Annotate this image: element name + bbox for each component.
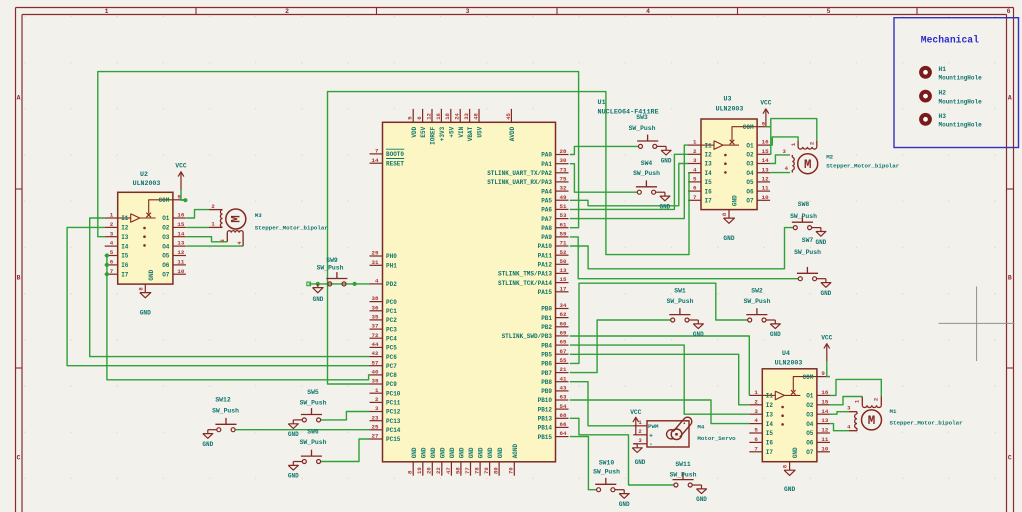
svg-text:SW_Push: SW_Push (212, 408, 239, 415)
svg-text:I2: I2 (121, 225, 129, 232)
svg-text:VCC: VCC (760, 100, 771, 107)
U4 pin 8 GND + ground symbol (782, 462, 796, 493)
svg-text:20: 20 (426, 467, 433, 474)
svg-text:PA12: PA12 (538, 262, 553, 269)
svg-text:50: 50 (560, 258, 567, 265)
SW11 labels (670, 461, 697, 479)
U4 pin 10 O7 (806, 445, 830, 456)
svg-text:15: 15 (821, 398, 828, 405)
svg-text:14: 14 (821, 408, 828, 415)
M2 coil A (horizontal) (790, 141, 817, 149)
push button SW7 (797, 267, 832, 297)
svg-text:PA11: PA11 (538, 252, 553, 259)
wire U4.O3 to M1 coilB top (830, 412, 849, 415)
wire PA5 to U3.I3 (570, 164, 688, 206)
mounting hole H3 (921, 113, 982, 129)
svg-text:COM: COM (803, 374, 814, 381)
svg-text:U5V: U5V (477, 126, 484, 137)
svg-text:SW6: SW6 (307, 429, 319, 436)
svg-text:58: 58 (454, 467, 461, 474)
svg-text:I4: I4 (121, 243, 129, 250)
SW10 labels (593, 460, 620, 476)
svg-text:STLINK_TCK/PA14: STLINK_TCK/PA14 (498, 280, 552, 287)
svg-text:1: 1 (693, 139, 697, 146)
U1 bottom pin 58 GND (454, 447, 465, 476)
svg-text:SW_Push: SW_Push (300, 400, 327, 407)
svg-text:STLINK_TMS/PA13: STLINK_TMS/PA13 (498, 271, 552, 278)
svg-text:-: - (649, 441, 653, 448)
svg-text:35: 35 (372, 314, 379, 321)
svg-text:5: 5 (693, 176, 697, 183)
svg-text:39: 39 (372, 378, 379, 385)
U1 right pin 43 PB9 (541, 385, 568, 396)
U1 left pin 36 PC1 (370, 304, 398, 315)
svg-text:7: 7 (754, 445, 758, 452)
U1 bottom pin 47 GND (445, 447, 456, 476)
U2 pin 12 O5 (162, 249, 186, 260)
svg-text:I7: I7 (705, 198, 713, 205)
svg-text:A: A (1008, 94, 1012, 101)
svg-text:SW9: SW9 (326, 257, 338, 264)
U1 left pin 44 PC5 (370, 341, 398, 352)
svg-text:80: 80 (493, 467, 500, 474)
push button SW10 (595, 478, 630, 508)
U1 left pin 39 PC9 (370, 378, 398, 389)
svg-text:GND: GND (723, 235, 734, 242)
svg-text:PC11: PC11 (386, 400, 401, 407)
M3 coil A (vertical) (209, 203, 223, 228)
svg-text:M: M (868, 414, 876, 428)
svg-text:GND: GND (468, 447, 475, 458)
svg-text:PB8: PB8 (541, 379, 552, 386)
svg-text:PB4: PB4 (541, 342, 552, 349)
svg-text:48: 48 (472, 112, 479, 119)
svg-text:VIN: VIN (458, 126, 465, 137)
svg-text:75: 75 (560, 176, 567, 183)
svg-text:3: 3 (375, 405, 379, 412)
svg-text:STLINK_SWD/PB3: STLINK_SWD/PB3 (502, 333, 553, 340)
U1 left pin 37 PC3 (370, 323, 398, 334)
push button SW8 (792, 216, 827, 246)
svg-text:M3: M3 (255, 212, 262, 219)
mounting hole H1 (921, 66, 982, 82)
svg-text:C: C (1008, 454, 1012, 461)
svg-text:2: 2 (285, 8, 289, 15)
U1 right pin 41 PB8 (541, 375, 568, 386)
svg-text:M1: M1 (890, 408, 897, 415)
svg-text:O1: O1 (162, 215, 170, 222)
svg-text:PB6: PB6 (541, 361, 552, 368)
U2 pin 3 I3 (105, 230, 129, 241)
U1 right pin 49 PA5 (541, 194, 568, 205)
svg-text:27: 27 (372, 433, 379, 440)
U1 left pin 29 PH0 (370, 250, 398, 261)
svg-text:19: 19 (416, 467, 423, 474)
svg-text:B: B (1008, 274, 1012, 281)
U1 right pin 54 PB12 (538, 403, 569, 414)
svg-text:GND: GND (487, 447, 494, 458)
svg-text:GND: GND (449, 447, 456, 458)
svg-text:69: 69 (560, 330, 567, 337)
push button SW6 (288, 450, 322, 480)
svg-text:1: 1 (110, 212, 114, 219)
SW8 labels (790, 201, 817, 220)
svg-text:O5: O5 (162, 253, 170, 260)
dangling wire end marker (307, 282, 311, 286)
U1 bottom pin 79 GND (483, 447, 494, 476)
svg-text:I3: I3 (121, 234, 129, 241)
SW3 labels (629, 114, 656, 132)
M1 coil B (vertical) (847, 405, 857, 431)
U1 left pin 31 PH1 (370, 259, 398, 270)
svg-text:I1: I1 (121, 215, 129, 222)
wire net U2.I2 to PC7 (67, 227, 369, 365)
svg-text:O6: O6 (162, 262, 170, 269)
svg-text:16: 16 (762, 139, 769, 146)
svg-text:O2: O2 (806, 402, 814, 409)
svg-text:64: 64 (560, 430, 567, 437)
wire U4.O2 to M1 coilA pin1 (830, 397, 862, 405)
svg-text:O6: O6 (806, 440, 814, 447)
U1 right pin 50 PA12 (538, 258, 569, 269)
svg-text:PA15: PA15 (538, 289, 553, 296)
svg-text:13: 13 (762, 166, 769, 173)
U1 bottom pin 22 GND (435, 447, 446, 476)
svg-text:O6: O6 (746, 188, 754, 195)
svg-text:AGND: AGND (512, 443, 519, 458)
svg-text:GND: GND (288, 431, 299, 438)
svg-text:I2: I2 (766, 402, 774, 409)
U4 pin 3 I3 (749, 408, 773, 419)
svg-text:E5V: E5V (420, 126, 427, 137)
svg-text:PH1: PH1 (386, 263, 397, 270)
M1 labels (890, 408, 964, 426)
U3 pin 12 O5 (746, 176, 770, 187)
svg-text:1: 1 (375, 387, 379, 394)
SW6 labels (300, 429, 327, 447)
svg-text:PC15: PC15 (386, 436, 401, 443)
svg-text:Motor_Servo: Motor_Servo (697, 435, 736, 442)
svg-text:SW_Push: SW_Push (317, 265, 344, 272)
svg-text:5: 5 (110, 249, 114, 256)
svg-text:52: 52 (560, 249, 567, 256)
U4 pin 1 I1 (749, 389, 773, 400)
U3 pin 3 I3 (688, 157, 712, 168)
svg-text:PA5: PA5 (541, 197, 552, 204)
U1 right pin 52 PA11 (538, 249, 569, 260)
power symbol VCC at U3 (760, 100, 771, 127)
svg-text:PA8: PA8 (541, 225, 552, 232)
svg-text:I6: I6 (766, 440, 774, 447)
U3 pin 8 GND + ground symbol (721, 210, 735, 242)
svg-text:GND: GND (148, 269, 155, 280)
U2 pin 13 O4 (162, 240, 186, 251)
U1 left pin 72 PC4 (370, 332, 398, 343)
svg-text:32: 32 (560, 185, 567, 192)
IC U1 NUCLEO64-F411RE body (383, 122, 556, 462)
U3 pin 11 O6 (746, 185, 770, 196)
svg-text:PB2: PB2 (541, 324, 552, 331)
svg-text:GND: GND (439, 447, 446, 458)
svg-text:71: 71 (560, 240, 567, 247)
SW5 labels (300, 389, 327, 407)
svg-text:3: 3 (466, 8, 470, 15)
svg-text:42: 42 (372, 350, 379, 357)
U1 right pin 53 PA7 (541, 212, 568, 223)
U1 top pin 5 VDD (407, 109, 418, 138)
U2 pin 9 COM (159, 193, 186, 204)
wire PA0 to SW3 (570, 146, 639, 154)
svg-text:SW11: SW11 (675, 461, 691, 468)
wire PB13 to SW11 (570, 418, 674, 485)
U1 left pin 1 PC10 (370, 387, 401, 398)
svg-text:11: 11 (177, 259, 184, 266)
svg-text:Mechanical: Mechanical (921, 35, 979, 46)
svg-text:SW2: SW2 (751, 288, 763, 295)
junction U2.I6 (105, 263, 109, 267)
svg-text:Stepper_Motor_bipolar: Stepper_Motor_bipolar (890, 420, 964, 427)
U4 pin 13 O4 (806, 417, 830, 428)
svg-text:SW3: SW3 (636, 114, 648, 121)
SW9 labels (317, 257, 344, 272)
svg-text:PB0: PB0 (541, 306, 552, 313)
power symbol VCC at U4 (821, 335, 832, 362)
svg-text:SW_Push: SW_Push (790, 213, 817, 220)
svg-text:6: 6 (110, 259, 114, 266)
U2 pin 6 I6 (105, 259, 129, 270)
svg-text:PB14: PB14 (538, 425, 553, 432)
svg-text:SW_Push: SW_Push (300, 439, 327, 446)
IC U4 ULN2003 body (762, 369, 817, 462)
svg-text:14: 14 (372, 157, 379, 164)
U2 pin 11 O6 (162, 259, 186, 270)
wire PB15 to SW10 (570, 437, 597, 490)
svg-text:17: 17 (560, 285, 567, 292)
svg-text:4: 4 (754, 417, 758, 424)
svg-text:6: 6 (693, 185, 697, 192)
U1 right pin 64 PB15 (538, 430, 569, 441)
U1 bottom pin 70 AGND (508, 443, 519, 475)
svg-text:PA0: PA0 (541, 152, 552, 159)
svg-text:11: 11 (762, 185, 769, 192)
svg-text:5: 5 (827, 8, 831, 15)
svg-text:13: 13 (821, 417, 828, 424)
svg-text:22: 22 (435, 467, 442, 474)
svg-text:28: 28 (560, 148, 567, 155)
svg-text:Stepper_Motor_bipolar: Stepper_Motor_bipolar (255, 225, 329, 232)
svg-text:GND: GND (815, 239, 826, 246)
U1 right pin 28 PA0 (541, 148, 568, 159)
wire PB8 to servo PWM (570, 382, 633, 426)
svg-text:4: 4 (646, 8, 650, 15)
push button SW5 (288, 408, 322, 438)
svg-text:I1: I1 (766, 393, 774, 400)
U1 top pin 18 +5V (444, 109, 455, 138)
U1 right pin 65 PB4 (541, 339, 568, 350)
svg-text:68: 68 (560, 412, 567, 419)
svg-text:O5: O5 (806, 430, 814, 437)
SW12 labels (212, 397, 239, 415)
U1 right pin 69 STLINK_SWD/PB3 (502, 330, 569, 341)
svg-text:GND: GND (792, 447, 799, 458)
wire PB4 to U4.I3 (570, 345, 750, 414)
U1 left pin 25 PC14 (370, 423, 401, 434)
svg-text:PC2: PC2 (386, 317, 397, 324)
wire PD2 through SW9 (309, 283, 370, 285)
svg-text:25: 25 (372, 423, 379, 430)
svg-text:12: 12 (177, 249, 184, 256)
svg-text:3: 3 (110, 230, 114, 237)
svg-text:PC10: PC10 (386, 390, 401, 397)
svg-text:2: 2 (375, 396, 379, 403)
U1 top pin 16 +3V3 (435, 109, 446, 141)
svg-text:14: 14 (177, 230, 184, 237)
U1 bottom pin 20 GND (426, 447, 437, 476)
svg-text:I4: I4 (705, 170, 713, 177)
wire U2.O3 to M3 coilB left (186, 237, 227, 242)
junction at SW9/GND (316, 282, 320, 286)
M3 coil B (horizontal) (219, 231, 243, 246)
svg-text:SW_Push: SW_Push (629, 125, 656, 132)
U4 pin 4 I4 (749, 417, 773, 428)
wire U2.O2 to M3 coilA bottom (186, 226, 209, 228)
wire U4.O4 to M1 coilB bottom (830, 424, 849, 431)
wire PA7 to U3.I1 (570, 145, 688, 219)
svg-text:MountingHole: MountingHole (939, 122, 983, 129)
U1 left pin 27 PC15 (370, 433, 401, 444)
svg-text:O3: O3 (806, 411, 814, 418)
svg-text:PB10: PB10 (538, 397, 553, 404)
svg-text:I2: I2 (705, 152, 713, 159)
svg-text:O7: O7 (162, 271, 170, 278)
U3 pin 13 O4 (746, 166, 770, 177)
wire SW6 to PC15 (321, 439, 370, 462)
U3 pin 10 O7 (746, 194, 770, 205)
U4 pin 5 I5 (749, 427, 773, 438)
svg-text:H2: H2 (939, 90, 947, 97)
U4 pin 14 O3 (806, 408, 830, 419)
svg-text:SW10: SW10 (599, 460, 615, 467)
svg-text:MountingHole: MountingHole (939, 75, 983, 82)
svg-text:9: 9 (821, 370, 825, 377)
U1 right pin 73 STLINK_UART_TX/PA2 (487, 166, 568, 177)
push button SW9 (326, 272, 347, 286)
svg-text:STLINK_UART_RX/PA3: STLINK_UART_RX/PA3 (487, 179, 552, 186)
svg-text:O3: O3 (746, 161, 754, 168)
U3 pin 4 I4 (688, 166, 712, 177)
svg-text:SW12: SW12 (215, 397, 231, 404)
wire U2.O1 to M3 coilA top (186, 210, 209, 218)
svg-text:70: 70 (508, 467, 515, 474)
svg-text:2: 2 (110, 221, 114, 228)
svg-text:GND: GND (732, 195, 739, 206)
wire PA10 to SW8 (570, 228, 794, 269)
svg-text:SW_Push: SW_Push (593, 469, 620, 476)
wire U3.O3 to M2 coilB top (770, 155, 790, 164)
svg-text:O1: O1 (806, 393, 814, 400)
push button SW11 (673, 473, 708, 503)
svg-text:9: 9 (762, 120, 766, 127)
svg-text:SW1: SW1 (674, 288, 686, 295)
wire PA9 to SW7 (570, 237, 799, 279)
svg-text:67: 67 (560, 348, 567, 355)
svg-text:U2: U2 (140, 171, 148, 178)
SW7 labels (794, 237, 821, 256)
svg-text:A: A (17, 94, 21, 101)
svg-text:4: 4 (693, 166, 697, 173)
U1 right pin 63 PB10 (538, 394, 569, 405)
svg-text:VDD: VDD (411, 126, 418, 137)
svg-text:BOOT0: BOOT0 (386, 151, 404, 158)
svg-text:+3V3: +3V3 (439, 126, 446, 141)
U1 left pin 40 PC8 (370, 369, 398, 380)
svg-text:I6: I6 (705, 188, 713, 195)
svg-text:SW5: SW5 (307, 389, 319, 396)
wire VCC to U4.COM (827, 361, 830, 376)
U1 right pin 17 PA15 (538, 285, 569, 296)
svg-text:GND: GND (770, 331, 781, 338)
svg-text:7: 7 (693, 194, 697, 201)
U2 reference label (133, 171, 161, 187)
wire U3.O4 to M2 coilB bottom (770, 172, 790, 174)
svg-text:15: 15 (560, 276, 567, 283)
svg-text:12: 12 (762, 176, 769, 183)
svg-text:60: 60 (560, 320, 567, 327)
U1 left pin 57 PC7 (370, 359, 398, 370)
svg-text:45: 45 (505, 112, 512, 119)
U1 right pin 13 STLINK_TMS/PA13 (498, 267, 569, 278)
svg-text:11: 11 (821, 436, 828, 443)
svg-text:PB5: PB5 (541, 351, 552, 358)
U1 left pin 23 PC13 (370, 414, 401, 425)
wire U3.O2 to M2 coilA pin2 (770, 119, 817, 155)
wire PB6 to SW2 (570, 283, 748, 363)
M3 labels (255, 212, 329, 232)
U1 right pin 62 PB1 (541, 311, 568, 322)
svg-text:PB13: PB13 (538, 416, 553, 423)
svg-text:63: 63 (560, 394, 567, 401)
U4 pin 12 O5 (806, 427, 830, 438)
svg-text:38: 38 (372, 295, 379, 302)
svg-text:H3: H3 (939, 113, 947, 120)
svg-text:H1: H1 (939, 66, 947, 73)
U1 right pin 71 PA10 (538, 240, 569, 251)
svg-text:GND: GND (140, 310, 151, 317)
svg-text:PC7: PC7 (386, 363, 397, 370)
push button SW12 (202, 418, 236, 448)
svg-text:SW_Push: SW_Push (670, 472, 697, 479)
svg-text:PC3: PC3 (386, 326, 397, 333)
svg-text:PA7: PA7 (541, 216, 552, 223)
U1 left pin 35 PC2 (370, 314, 398, 325)
svg-text:PD2: PD2 (386, 281, 397, 288)
svg-text:U4: U4 (782, 350, 790, 357)
svg-text:GND: GND (313, 296, 324, 303)
U1 left pin 2 PC11 (370, 396, 401, 407)
svg-text:VCC: VCC (821, 335, 832, 342)
svg-text:16: 16 (435, 112, 442, 119)
svg-text:5: 5 (754, 427, 758, 434)
U2 pin 16 O1 (162, 212, 186, 223)
wire net PC9 to U3.I4 (long route) (328, 92, 690, 384)
svg-text:41: 41 (560, 375, 567, 382)
svg-text:I6: I6 (121, 262, 129, 269)
svg-text:PA6: PA6 (541, 207, 552, 214)
svg-text:57: 57 (372, 359, 379, 366)
wire PB5 to U4.I2 (570, 354, 750, 405)
svg-text:PA10: PA10 (538, 243, 553, 250)
U1 right pin 51 PA6 (541, 203, 568, 214)
